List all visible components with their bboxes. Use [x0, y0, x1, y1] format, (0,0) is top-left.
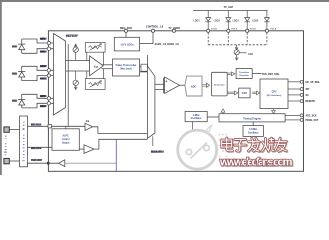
svg-text:(I2C Interface): (I2C Interface)	[267, 94, 282, 97]
wire: U1 outputs to transcoder	[102, 65, 113, 69]
buffer B3 (left arrow)	[59, 160, 65, 167]
wire gray return	[65, 162, 117, 164]
box video transcoder	[113, 59, 140, 76]
wire B2 out	[94, 139, 147, 149]
mux M2	[147, 55, 155, 138]
svg-text:TV_AVDD: TV_AVDD	[168, 27, 180, 30]
wire: mux outputs to VGA amp	[66, 61, 90, 72]
resistor R2 (feedback bottom)	[85, 69, 105, 90]
svg-text:4-MHz: 4-MHz	[193, 114, 201, 117]
pin junction circles group1	[47, 41, 50, 50]
svg-text:SPI: SPI	[306, 89, 310, 91]
node AIN1B	[40, 77, 46, 79]
arrow decimator to TD	[227, 72, 235, 76]
svg-text:ALPC: ALPC	[62, 135, 69, 138]
diode D3	[18, 94, 53, 108]
external decoupling column 4	[264, 11, 269, 31]
wire B2 in	[79, 148, 84, 150]
svg-text:ADC_SCK: ADC_SCK	[306, 115, 317, 118]
chip boundary	[48, 31, 303, 172]
box LDOs	[114, 37, 139, 51]
wire: top rail pin RX junction	[124, 29, 175, 32]
svg-text:P0A: P0A	[12, 45, 17, 48]
node AIP1A	[40, 38, 46, 40]
svg-text:Vga: Vga	[94, 66, 99, 68]
svg-text:SCLK_PT: SCLK_PT	[151, 151, 162, 154]
node AIN1A	[40, 51, 46, 53]
svg-text:1.8-V LDOs: 1.8-V LDOs	[120, 43, 134, 46]
watermark dots	[219, 134, 228, 162]
svg-text:RESETB: RESETB	[306, 101, 316, 103]
svg-text:CPU: CPU	[272, 92, 277, 94]
node INP_PLS	[31, 123, 42, 125]
wire osc bottom stub	[192, 122, 194, 138]
svg-text:TV1.8: TV1.8	[231, 29, 238, 31]
op-amp U2 (ADC driver)	[162, 78, 164, 93]
wire ADC to decimator arrow	[202, 83, 210, 87]
wire mux2 stub	[152, 136, 154, 146]
svg-text:www.elecfans.com: www.elecfans.com	[219, 156, 293, 168]
svg-text:TV1.8: TV1.8	[250, 29, 257, 31]
arrow decimator to FIFO	[227, 91, 238, 95]
box FIFO	[239, 88, 250, 98]
box gain block	[141, 64, 148, 71]
node PLD_OUT	[31, 159, 41, 161]
node P0A	[12, 45, 17, 47]
arrow FIFO to CPU	[252, 91, 260, 95]
wire TD out	[252, 73, 261, 75]
label Mux	[66, 34, 78, 36]
wire mux2 to op-amp2	[155, 84, 165, 89]
LDO pin junctions on rail	[207, 29, 269, 32]
svg-text:LDO4: LDO4	[252, 20, 259, 23]
svg-text:AIP1C: AIP1C	[40, 95, 47, 98]
CPU output wires and pins	[288, 82, 300, 101]
wire osc to TE	[207, 116, 219, 118]
svg-text:Transition: Transition	[239, 71, 250, 74]
TE output wires	[285, 115, 300, 120]
LDO external section top line	[193, 10, 268, 12]
svg-text:ALDO_1.8, DLDO_1.8: ALDO_1.8, DLDO_1.8	[155, 43, 180, 46]
wire TE to OSD osc	[252, 122, 254, 126]
wire CONTROL pin to LDO out	[152, 32, 154, 43]
svg-text:P0C: P0C	[12, 100, 17, 103]
dashed LDO distribution	[208, 33, 267, 45]
wire U2 to ADC	[180, 84, 185, 86]
arrow up into timing engine	[221, 109, 225, 114]
svg-text:LDO1: LDO1	[194, 21, 201, 23]
svg-text:(Mux 3x2): (Mux 3x2)	[66, 35, 77, 38]
svg-text:LDO2: LDO2	[214, 21, 221, 23]
svg-text:PROG_OUT: PROG_OUT	[306, 120, 319, 122]
svg-text:TV1.8: TV1.8	[211, 29, 218, 31]
external decoupling column 2	[226, 11, 231, 31]
svg-text:−: −	[166, 89, 168, 93]
wire transcoder to mux2	[140, 67, 148, 72]
current source I2	[73, 71, 78, 90]
svg-text:+: +	[165, 80, 167, 84]
box timing engine	[219, 114, 285, 122]
ADC A1	[185, 76, 202, 96]
svg-text:Mux (out): Mux (out)	[120, 68, 131, 71]
wire LDO output	[140, 43, 154, 45]
svg-text:REG_AVD: REG_AVD	[120, 27, 132, 30]
pin square J2	[4, 158, 9, 163]
clamp bias line	[67, 44, 69, 126]
resistor R1 (feedback top)	[85, 43, 105, 65]
image frame left border	[0, 0, 2, 175]
svg-text:TV1.8: TV1.8	[270, 29, 277, 31]
arrow CPU to timing engine	[272, 109, 276, 114]
wire pin to LDOs	[125, 32, 127, 37]
svg-text:Decimator: Decimator	[214, 83, 225, 86]
junction dot	[47, 162, 50, 165]
pin square J1	[4, 127, 9, 132]
svg-text:LDO3: LDO3	[233, 21, 240, 23]
box 4MHz oscillator	[185, 112, 207, 122]
node P0C	[12, 100, 17, 102]
box standards (vertical)	[20, 116, 28, 167]
svg-text:control: control	[62, 138, 70, 141]
svg-text:FIFO: FIFO	[242, 93, 247, 95]
svg-text:Video Transcoder: Video Transcoder	[116, 64, 137, 67]
svg-text:TV_ALP: TV_ALP	[224, 6, 234, 9]
diode D1	[18, 39, 53, 53]
wire J1 to box	[9, 129, 19, 131]
node INA_PLS	[31, 147, 42, 149]
wire purple vertical	[115, 139, 117, 171]
wire PLD out	[28, 162, 59, 164]
wire to PLL box	[28, 146, 53, 148]
diode D2	[18, 66, 53, 80]
svg-text:AIP1A: AIP1A	[40, 38, 47, 41]
box PLL	[52, 129, 79, 151]
current source I1	[73, 44, 78, 61]
svg-text:ADC: ADC	[191, 85, 197, 88]
svg-text:P0B: P0B	[12, 73, 17, 76]
box CPU	[260, 79, 288, 109]
node AIN1C	[40, 105, 46, 107]
svg-text:AIN1C: AIN1C	[40, 105, 47, 108]
external decoupling column 3	[245, 11, 250, 31]
buffer B2	[84, 145, 94, 154]
svg-text:Oscillator: Oscillator	[248, 132, 259, 135]
external decoupling column 1	[206, 11, 211, 31]
buffer B1	[85, 123, 93, 130]
svg-text:Detection: Detection	[239, 74, 249, 77]
svg-text:CONTROL_1.8: CONTROL_1.8	[146, 25, 164, 28]
svg-text:AIN1A: AIN1A	[40, 51, 47, 54]
box transition detection	[236, 69, 252, 79]
svg-text:Oscillator: Oscillator	[191, 117, 202, 120]
svg-text:13-MHz: 13-MHz	[249, 129, 258, 131]
current source IREF	[234, 45, 246, 60]
box OSD oscillator	[243, 126, 263, 137]
wire crystal line	[28, 125, 86, 127]
node AIP1B	[40, 65, 46, 67]
image frame top border	[0, 0, 329, 2]
svg-text:PLD_OUT: PLD_OUT	[31, 159, 43, 162]
node SCLK	[151, 151, 164, 153]
svg-text:AIN1B: AIN1B	[40, 77, 47, 80]
svg-text:Output: Output	[62, 141, 70, 144]
wire B1 out	[93, 127, 148, 134]
wire J2 to box	[9, 160, 19, 162]
svg-text:SA: SA	[306, 94, 310, 97]
wire stub to PLL box	[65, 126, 67, 129]
svg-text:AIP1B: AIP1B	[40, 65, 47, 68]
node P0B	[12, 73, 17, 75]
box decimator	[212, 72, 228, 96]
op-amp U1 (VGA)	[90, 56, 104, 76]
svg-text:I2C_SP_SDA: I2C_SP_SDA	[306, 81, 320, 84]
pin square on chip edge	[48, 125, 51, 128]
node AIP1C	[40, 95, 46, 97]
svg-text:THS_DET_SCH: THS_DET_SCH	[262, 73, 280, 76]
svg-text:Timing Engine: Timing Engine	[243, 116, 261, 120]
mux M1	[54, 34, 66, 116]
svg-text:LDO: LDO	[248, 53, 253, 56]
watermark logo circle	[178, 126, 217, 170]
